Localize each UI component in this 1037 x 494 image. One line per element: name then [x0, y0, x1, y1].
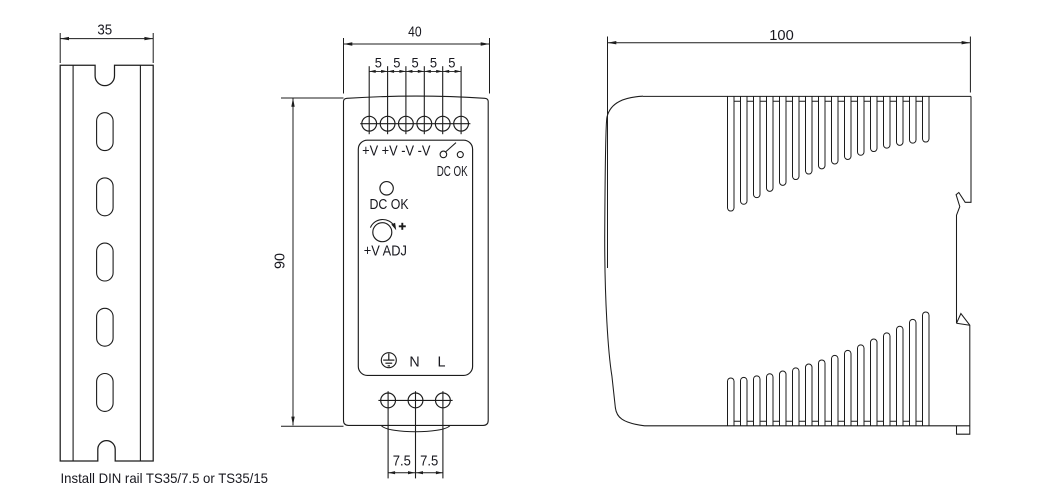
bottom vent slot 13 — [884, 333, 891, 426]
screw terminal 2 — [380, 116, 395, 131]
top vent web 2 — [747, 96, 754, 101]
bottom vent slot 16 — [923, 312, 930, 426]
input terminal 3 — [436, 393, 451, 408]
front body outline — [344, 96, 489, 425]
label DC OK relay — [437, 164, 468, 180]
bottom vent web 1 — [734, 421, 741, 426]
dimension 5 arrows 4 — [424, 70, 442, 73]
bottom vent web 11 — [864, 421, 871, 426]
top vent slot 16 — [923, 96, 930, 142]
bottom vent slot 8 — [819, 360, 826, 426]
bottom vent slot 11 — [858, 345, 865, 426]
bottom vent slot 2 — [741, 377, 748, 425]
terminal tick line 3 — [405, 66, 407, 134]
bottom vent slot 14 — [897, 326, 904, 426]
bottom vent slot 5 — [780, 371, 787, 426]
dimension 100 line — [608, 37, 971, 269]
bottom vent web 6 — [799, 421, 806, 426]
bottom vent slot 7 — [806, 364, 813, 426]
svg-text:7.5: 7.5 — [420, 454, 438, 470]
dimension 35 label — [97, 22, 112, 38]
label plus — [399, 223, 406, 230]
top vent slot 10 — [845, 96, 852, 159]
top vent web 5 — [786, 96, 793, 101]
dimension 5 arrows 3 — [406, 70, 424, 73]
svg-text:DC OK: DC OK — [437, 164, 468, 180]
input terminal 2 — [408, 393, 423, 408]
svg-text:5: 5 — [375, 54, 382, 70]
dimension 5 arrows 5 — [443, 70, 461, 73]
top vent web 4 — [773, 96, 780, 101]
dimension 40 label — [408, 25, 422, 41]
terminal tick line 6 — [460, 66, 462, 134]
screw terminal 3 — [399, 116, 414, 131]
terminal tick line 1 — [368, 66, 370, 134]
top vent web 7 — [812, 96, 819, 101]
top vent slot 6 — [793, 96, 800, 179]
dimension 5 label 1 — [375, 54, 382, 70]
top vent slot 3 — [754, 96, 761, 197]
svg-text:+V ADJ: +V ADJ — [364, 244, 407, 260]
svg-text:Install DIN rail TS35/7.5 or T: Install DIN rail TS35/7.5 or TS35/15 — [61, 471, 269, 486]
top vent slot 8 — [819, 96, 826, 168]
top vent web 1 — [734, 96, 741, 101]
top vent web 10 — [851, 96, 858, 101]
label +V +V -V -V — [362, 144, 431, 160]
top vent web 6 — [799, 96, 806, 101]
screw terminal 5 — [435, 116, 450, 131]
DC OK LED — [380, 182, 393, 195]
dimension 5 label 2 — [393, 54, 400, 70]
input terminal line 2 — [415, 391, 417, 478]
svg-text:5: 5 — [412, 54, 419, 70]
bottom vent web 15 — [916, 421, 923, 426]
dimension 5 label 4 — [430, 54, 437, 70]
dimension 5 arrows 2 — [388, 70, 406, 73]
top vent slot 7 — [806, 96, 813, 174]
svg-text:90: 90 — [273, 253, 289, 269]
side body top edge — [643, 95, 971, 97]
bottom vent web 14 — [903, 421, 910, 426]
DIN rail slot 4 — [97, 308, 114, 346]
side body bottom edge — [645, 425, 971, 427]
DIN rail slot 1 — [97, 113, 114, 151]
top vent web 8 — [825, 96, 832, 101]
top vent web 14 — [903, 96, 910, 101]
label DC OK led — [370, 197, 409, 213]
top vent slot 12 — [871, 96, 878, 151]
svg-text:7.5: 7.5 — [393, 454, 411, 470]
bottom vent web 10 — [851, 421, 858, 426]
screw terminal 4 — [417, 116, 432, 131]
screw terminal 1 — [362, 116, 377, 131]
svg-text:L: L — [438, 354, 446, 370]
bottom vent web 7 — [812, 421, 819, 426]
top vent web 15 — [916, 96, 923, 101]
top vent slot 4 — [767, 96, 774, 191]
dimension 90 label — [273, 253, 289, 269]
bottom vent web 9 — [838, 421, 845, 426]
bottom vent web 12 — [877, 421, 884, 426]
earth ground symbol — [381, 353, 396, 368]
bottom vent web 5 — [786, 421, 793, 426]
bottom vent web 8 — [825, 421, 832, 426]
label N — [409, 354, 419, 370]
top vent slot 13 — [884, 96, 891, 148]
top vent web 12 — [877, 96, 884, 101]
label L — [438, 354, 446, 370]
DIN rail outline — [60, 65, 153, 461]
dimension 90 line — [281, 98, 344, 426]
dimension 5 arrows 1 — [369, 70, 387, 73]
top vent slot 11 — [858, 96, 865, 155]
bottom terminal center line — [378, 399, 452, 401]
dimension 7.5 lines — [388, 471, 443, 474]
top vent slot 2 — [741, 96, 748, 204]
input terminal 1 — [381, 393, 396, 408]
top vent slot 9 — [832, 96, 839, 164]
bottom vent slot 9 — [832, 355, 839, 425]
label +V ADJ — [364, 244, 407, 260]
side DIN clip edge — [956, 96, 971, 434]
terminal row center line — [360, 123, 470, 125]
input terminal line 1 — [387, 391, 389, 478]
dimension 35 line — [60, 33, 153, 63]
svg-text:DC OK: DC OK — [370, 197, 409, 213]
top vent web 11 — [864, 96, 871, 101]
svg-text:+V +V -V -V: +V +V -V -V — [362, 144, 431, 160]
svg-text:5: 5 — [393, 54, 400, 70]
DIN rail inner flange lines — [73, 65, 140, 461]
dimension 7.5 labels — [393, 454, 439, 470]
DIN rail slot 5 — [97, 374, 114, 412]
side DIN clip latch base — [957, 323, 970, 325]
bottom vent web 2 — [747, 421, 754, 426]
top vent web 9 — [838, 96, 845, 101]
dimension 5 label 5 — [448, 54, 455, 70]
bottom vent web 13 — [890, 421, 897, 426]
bottom clip bulge — [382, 426, 450, 432]
side body front edge — [605, 96, 645, 426]
terminal tick line 5 — [442, 66, 444, 134]
svg-text:35: 35 — [97, 22, 112, 38]
terminal tick line 2 — [387, 66, 389, 134]
svg-text:N: N — [409, 354, 419, 370]
DIN rail slot 3 — [97, 243, 114, 281]
screw terminal 6 — [454, 116, 469, 131]
top vent slot 15 — [910, 96, 917, 143]
top vent slot 1 — [728, 96, 735, 211]
bottom vent slot 10 — [845, 350, 852, 425]
svg-text:5: 5 — [448, 54, 455, 70]
bottom vent slot 3 — [754, 376, 761, 426]
top vent web 3 — [760, 96, 767, 101]
top vent web 13 — [890, 96, 897, 101]
dimension 5 label 3 — [412, 54, 419, 70]
input terminal line 3 — [442, 391, 444, 478]
front panel — [358, 140, 472, 375]
top vent slot 5 — [780, 96, 787, 185]
bottom vent slot 4 — [767, 374, 774, 426]
bottom vent slot 15 — [910, 319, 917, 425]
bottom vent slot 12 — [871, 339, 878, 426]
DIN rail slot 2 — [97, 178, 114, 216]
caption Install DIN rail — [61, 471, 269, 486]
bottom vent web 3 — [760, 421, 767, 426]
top vent slot 14 — [897, 96, 904, 145]
dimension 100 label — [769, 28, 794, 44]
svg-text:5: 5 — [430, 54, 437, 70]
bottom vent slot 6 — [793, 368, 800, 426]
svg-text:100: 100 — [769, 28, 794, 44]
svg-text:40: 40 — [408, 25, 422, 41]
potentiometer +V ADJ — [370, 219, 396, 241]
terminal tick line 4 — [423, 66, 425, 134]
bottom vent slot 1 — [728, 378, 735, 426]
dimension 40 line — [344, 38, 490, 94]
bottom vent web 4 — [773, 421, 780, 426]
DC OK contact symbol — [440, 143, 463, 158]
